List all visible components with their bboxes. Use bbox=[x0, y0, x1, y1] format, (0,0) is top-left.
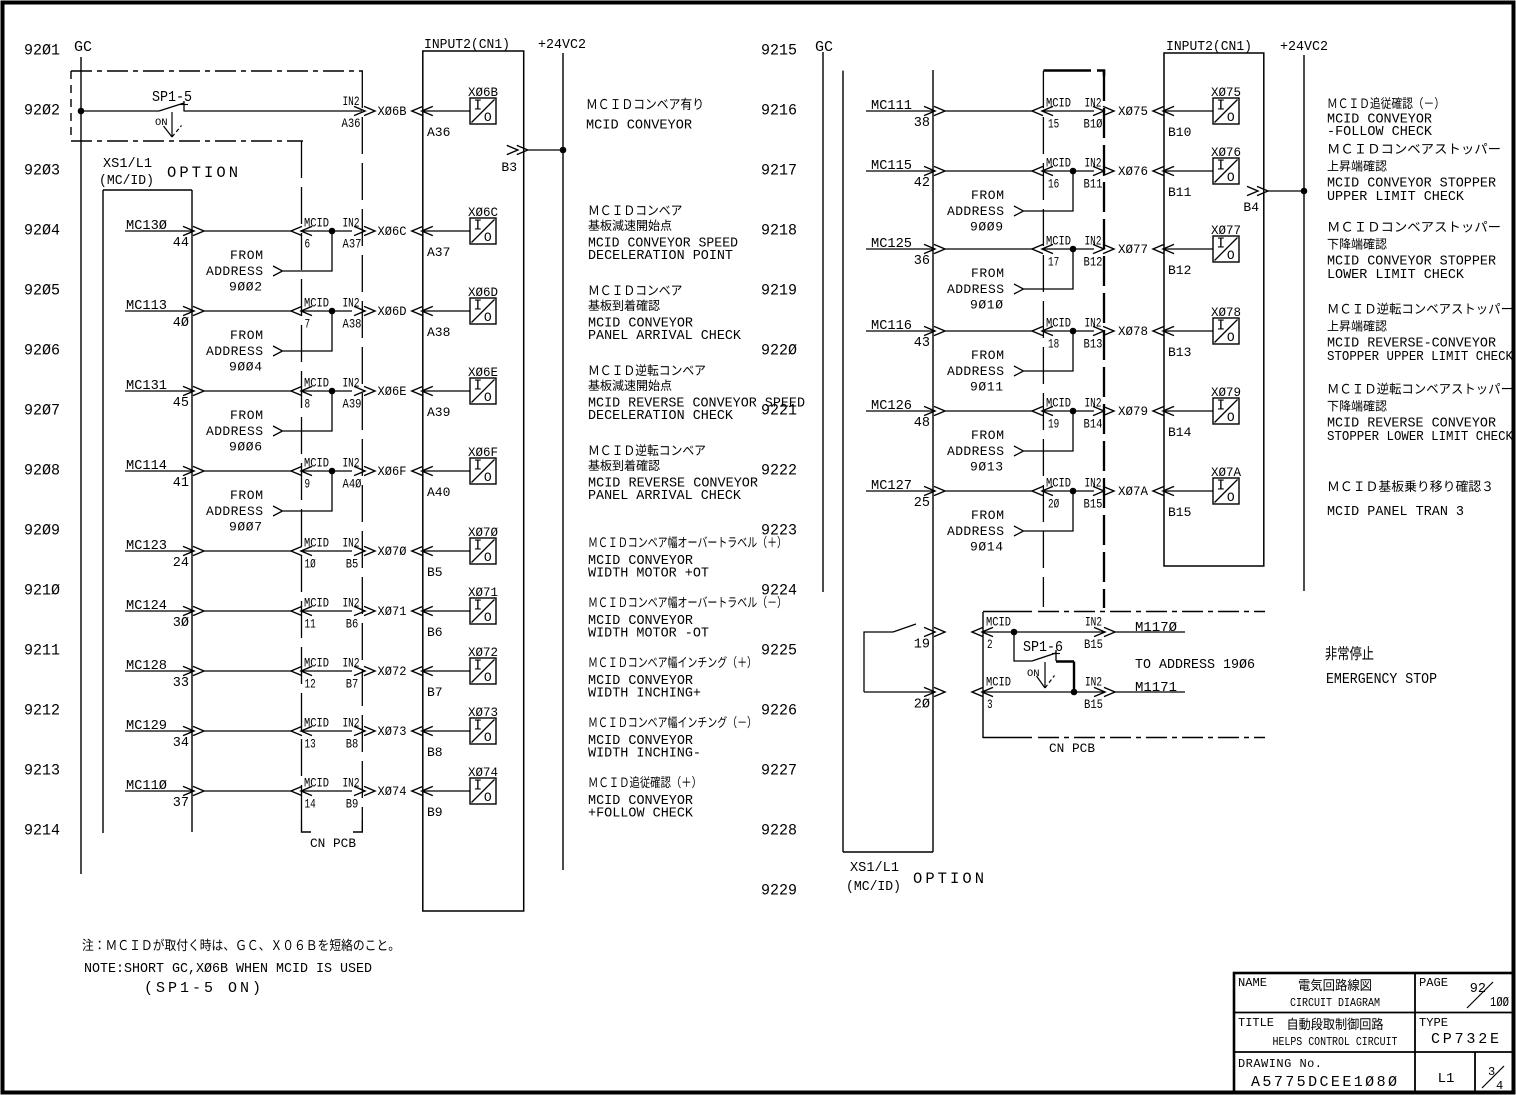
svg-text:9213: 9213 bbox=[24, 762, 60, 780]
svg-text:WIDTH INCHING-: WIDTH INCHING- bbox=[588, 746, 701, 762]
svg-text:FROM: FROM bbox=[971, 188, 1004, 203]
svg-text:XØ77: XØ77 bbox=[1211, 223, 1241, 238]
svg-text:XØ6B: XØ6B bbox=[468, 85, 498, 100]
svg-text:WIDTH MOTOR -OT: WIDTH MOTOR -OT bbox=[588, 626, 709, 642]
svg-text:O: O bbox=[484, 550, 492, 565]
svg-text:IN2: IN2 bbox=[1085, 615, 1102, 630]
svg-text:9229: 9229 bbox=[761, 882, 797, 900]
svg-text:FROM: FROM bbox=[230, 488, 263, 503]
svg-text:基板減速開始点: 基板減速開始点 bbox=[588, 375, 672, 394]
svg-text:PAGE: PAGE bbox=[1419, 976, 1448, 990]
svg-text:O: O bbox=[1227, 330, 1235, 345]
svg-text:XØ78: XØ78 bbox=[1211, 305, 1241, 320]
svg-text:XØ71: XØ71 bbox=[378, 604, 407, 619]
svg-text:DECELERATION CHECK: DECELERATION CHECK bbox=[588, 408, 734, 424]
svg-text:9ØØ9: 9ØØ9 bbox=[970, 220, 1003, 235]
svg-text:MCID: MCID bbox=[1046, 396, 1071, 411]
svg-text:XØ75: XØ75 bbox=[1118, 104, 1148, 119]
svg-text:24: 24 bbox=[173, 556, 189, 571]
svg-text:PANEL ARRIVAL CHECK: PANEL ARRIVAL CHECK bbox=[588, 488, 742, 504]
svg-text:MCID PANEL TRAN 3: MCID PANEL TRAN 3 bbox=[1327, 504, 1464, 520]
svg-text:M117Ø: M117Ø bbox=[1135, 620, 1177, 636]
svg-text:XØ79: XØ79 bbox=[1118, 404, 1148, 419]
svg-text:XØ6C: XØ6C bbox=[378, 224, 407, 239]
svg-text:XØ74: XØ74 bbox=[378, 784, 407, 799]
svg-text:O: O bbox=[1227, 110, 1235, 125]
svg-text:B1Ø: B1Ø bbox=[1084, 117, 1103, 132]
svg-text:基板到着確認: 基板到着確認 bbox=[588, 455, 660, 474]
svg-text:注：ＭＣＩＤが取付く時は、ＧＣ、Ｘ０６Ｂを短絡のこと。: 注：ＭＣＩＤが取付く時は、ＧＣ、Ｘ０６Ｂを短絡のこと。 bbox=[82, 934, 400, 954]
svg-text:2Ø: 2Ø bbox=[914, 698, 930, 713]
svg-text:XØ7A: XØ7A bbox=[1118, 484, 1148, 499]
svg-text:I: I bbox=[473, 779, 482, 795]
svg-text:B9: B9 bbox=[346, 797, 359, 812]
svg-text:TO ADDRESS 19Ø6: TO ADDRESS 19Ø6 bbox=[1135, 657, 1255, 673]
svg-text:A37: A37 bbox=[427, 245, 450, 260]
svg-text:92Ø9: 92Ø9 bbox=[24, 522, 60, 540]
svg-text:MC124: MC124 bbox=[126, 598, 167, 614]
svg-text:A36: A36 bbox=[342, 116, 361, 131]
svg-text:9Ø13: 9Ø13 bbox=[970, 460, 1003, 475]
svg-text:XØ6C: XØ6C bbox=[468, 205, 498, 220]
svg-text:I: I bbox=[1216, 319, 1225, 335]
svg-text:HELPS CONTROL CIRCUIT: HELPS CONTROL CIRCUIT bbox=[1273, 1036, 1398, 1049]
svg-text:O: O bbox=[484, 110, 492, 125]
svg-text:LOWER LIMIT CHECK: LOWER LIMIT CHECK bbox=[1327, 267, 1465, 283]
svg-text:CIRCUIT DIAGRAM: CIRCUIT DIAGRAM bbox=[1290, 997, 1380, 1010]
svg-text:下降端確認: 下降端確認 bbox=[1327, 396, 1387, 415]
svg-text:92Ø1: 92Ø1 bbox=[24, 42, 60, 60]
svg-text:MC128: MC128 bbox=[126, 658, 167, 674]
svg-text:MC131: MC131 bbox=[126, 378, 167, 394]
svg-text:A40: A40 bbox=[427, 485, 450, 500]
svg-text:MCID: MCID bbox=[304, 656, 329, 671]
svg-text:MCID: MCID bbox=[304, 456, 329, 471]
svg-text:O: O bbox=[1227, 490, 1235, 505]
svg-text:36: 36 bbox=[914, 254, 930, 269]
svg-text:FROM: FROM bbox=[971, 428, 1004, 443]
svg-text:B4: B4 bbox=[1243, 200, 1259, 215]
svg-text:EMERGENCY STOP: EMERGENCY STOP bbox=[1326, 671, 1437, 688]
svg-text:I: I bbox=[473, 299, 482, 315]
svg-text:11: 11 bbox=[305, 617, 316, 632]
svg-text:17: 17 bbox=[1048, 255, 1059, 270]
svg-text:INPUT2(CN1): INPUT2(CN1) bbox=[424, 38, 510, 53]
svg-text:I: I bbox=[1216, 399, 1225, 415]
svg-text:MC129: MC129 bbox=[126, 718, 167, 734]
svg-text:14: 14 bbox=[305, 797, 316, 812]
svg-text:XØ76: XØ76 bbox=[1118, 164, 1148, 179]
svg-text:SP1-5: SP1-5 bbox=[152, 90, 192, 106]
svg-text:MC111: MC111 bbox=[871, 98, 912, 114]
svg-text:I: I bbox=[1216, 237, 1225, 253]
svg-text:L1: L1 bbox=[1438, 1071, 1455, 1087]
svg-text:16: 16 bbox=[1048, 177, 1059, 192]
svg-text:9226: 9226 bbox=[761, 702, 797, 720]
svg-text:I: I bbox=[473, 219, 482, 235]
svg-text:O: O bbox=[484, 730, 492, 745]
svg-text:XØ73: XØ73 bbox=[378, 724, 407, 739]
svg-text:IN2: IN2 bbox=[343, 94, 360, 109]
svg-text:19: 19 bbox=[1048, 417, 1059, 432]
svg-text:13: 13 bbox=[305, 737, 316, 752]
svg-text:O: O bbox=[1227, 248, 1235, 263]
svg-text:I: I bbox=[473, 599, 482, 615]
svg-text:B12: B12 bbox=[1168, 263, 1191, 278]
svg-text:9217: 9217 bbox=[761, 162, 797, 180]
svg-text:48: 48 bbox=[914, 416, 930, 431]
svg-text:XØ6D: XØ6D bbox=[378, 304, 407, 319]
svg-text:7: 7 bbox=[305, 317, 311, 332]
svg-text:XØ6B: XØ6B bbox=[378, 104, 407, 119]
svg-text:(MC/ID): (MC/ID) bbox=[99, 173, 154, 189]
svg-text:45: 45 bbox=[173, 396, 189, 411]
svg-text:MCID: MCID bbox=[986, 615, 1011, 630]
svg-text:A36: A36 bbox=[427, 125, 450, 140]
svg-text:ＭＣＩＤ追従確認（＋）: ＭＣＩＤ追従確認（＋） bbox=[588, 772, 702, 791]
svg-text:MCID: MCID bbox=[1046, 156, 1071, 171]
svg-text:38: 38 bbox=[914, 116, 930, 131]
svg-text:DECELERATION POINT: DECELERATION POINT bbox=[588, 248, 733, 264]
svg-text:ON: ON bbox=[155, 117, 168, 129]
svg-text:DRAWING No.: DRAWING No. bbox=[1238, 1057, 1322, 1071]
svg-text:9: 9 bbox=[305, 477, 311, 492]
svg-text:34: 34 bbox=[173, 736, 189, 751]
svg-text:MC125: MC125 bbox=[871, 236, 912, 252]
svg-text:9ØØ7: 9ØØ7 bbox=[229, 520, 262, 535]
svg-text:MC115: MC115 bbox=[871, 158, 912, 174]
svg-text:WIDTH INCHING+: WIDTH INCHING+ bbox=[588, 686, 701, 702]
svg-text:4: 4 bbox=[1496, 1079, 1503, 1093]
svg-text:XØ6D: XØ6D bbox=[468, 285, 498, 300]
svg-text:ＭＣＩＤ追従確認（－）: ＭＣＩＤ追従確認（－） bbox=[1327, 93, 1445, 112]
svg-text:MC113: MC113 bbox=[126, 298, 167, 314]
svg-text:下降端確認: 下降端確認 bbox=[1327, 234, 1387, 253]
svg-text:42: 42 bbox=[914, 176, 930, 191]
svg-text:TYPE: TYPE bbox=[1419, 1016, 1448, 1030]
svg-text:1ØØ: 1ØØ bbox=[1490, 996, 1509, 1011]
svg-text:MCID: MCID bbox=[304, 596, 329, 611]
svg-text:XØ71: XØ71 bbox=[468, 585, 498, 600]
svg-text:9212: 9212 bbox=[24, 702, 60, 720]
svg-text:41: 41 bbox=[173, 476, 189, 491]
svg-text:9Ø1Ø: 9Ø1Ø bbox=[970, 298, 1003, 313]
svg-text:CN PCB: CN PCB bbox=[1049, 741, 1095, 756]
svg-text:O: O bbox=[484, 670, 492, 685]
svg-text:XØ75: XØ75 bbox=[1211, 85, 1241, 100]
svg-text:922Ø: 922Ø bbox=[761, 342, 797, 360]
svg-text:O: O bbox=[484, 390, 492, 405]
svg-text:ＭＣＩＤ基板乗り移り確認３: ＭＣＩＤ基板乗り移り確認３ bbox=[1327, 476, 1494, 495]
svg-text:MCID: MCID bbox=[304, 536, 329, 551]
svg-text:B13: B13 bbox=[1084, 337, 1103, 352]
svg-text:92Ø7: 92Ø7 bbox=[24, 402, 60, 420]
svg-text:XØ76: XØ76 bbox=[1211, 145, 1241, 160]
svg-text:STOPPER UPPER LIMIT CHECK: STOPPER UPPER LIMIT CHECK bbox=[1327, 349, 1514, 365]
svg-text:1Ø: 1Ø bbox=[305, 557, 316, 572]
svg-text:B3: B3 bbox=[501, 160, 517, 175]
svg-text:I: I bbox=[473, 99, 482, 115]
svg-text:上昇端確認: 上昇端確認 bbox=[1327, 156, 1387, 175]
svg-text:MCID: MCID bbox=[986, 675, 1011, 690]
svg-text:18: 18 bbox=[1048, 337, 1059, 352]
svg-text:I: I bbox=[1216, 99, 1225, 115]
svg-text:XØ7Ø: XØ7Ø bbox=[378, 544, 407, 559]
svg-text:92Ø3: 92Ø3 bbox=[24, 162, 60, 180]
svg-text:MC123: MC123 bbox=[126, 538, 167, 554]
svg-text:MCID: MCID bbox=[1046, 316, 1071, 331]
svg-text:B14: B14 bbox=[1084, 417, 1103, 432]
svg-text:I: I bbox=[1216, 159, 1225, 175]
svg-text:ADDRESS: ADDRESS bbox=[206, 344, 263, 359]
svg-text:B6: B6 bbox=[346, 617, 359, 632]
svg-text:ADDRESS: ADDRESS bbox=[206, 264, 263, 279]
svg-text:MC116: MC116 bbox=[871, 318, 912, 334]
svg-text:XØ74: XØ74 bbox=[468, 765, 498, 780]
svg-text:O: O bbox=[484, 610, 492, 625]
svg-text:FROM: FROM bbox=[971, 508, 1004, 523]
svg-text:B7: B7 bbox=[427, 685, 443, 700]
svg-text:FROM: FROM bbox=[230, 408, 263, 423]
svg-text:3: 3 bbox=[1488, 1065, 1495, 1079]
svg-text:IN2: IN2 bbox=[1085, 675, 1102, 690]
svg-text:FROM: FROM bbox=[230, 248, 263, 263]
svg-text:8: 8 bbox=[305, 397, 311, 412]
svg-text:3: 3 bbox=[987, 697, 993, 712]
svg-text:XØ7Ø: XØ7Ø bbox=[468, 525, 498, 540]
svg-text:INPUT2(CN1): INPUT2(CN1) bbox=[1166, 40, 1252, 55]
svg-text:9218: 9218 bbox=[761, 222, 797, 240]
svg-text:MCID: MCID bbox=[1046, 476, 1071, 491]
svg-text:O: O bbox=[484, 790, 492, 805]
svg-text:9Ø11: 9Ø11 bbox=[970, 380, 1003, 395]
svg-text:MC114: MC114 bbox=[126, 458, 167, 474]
svg-text:B8: B8 bbox=[427, 745, 443, 760]
svg-text:B11: B11 bbox=[1084, 177, 1103, 192]
svg-text:XS1/L1: XS1/L1 bbox=[850, 860, 899, 876]
svg-text:A39: A39 bbox=[343, 397, 362, 412]
svg-text:FROM: FROM bbox=[971, 348, 1004, 363]
svg-text:92Ø5: 92Ø5 bbox=[24, 282, 60, 300]
svg-text:44: 44 bbox=[173, 236, 189, 251]
svg-text:O: O bbox=[484, 230, 492, 245]
svg-text:9225: 9225 bbox=[761, 642, 797, 660]
svg-text:12: 12 bbox=[305, 677, 316, 692]
svg-text:9222: 9222 bbox=[761, 462, 797, 480]
svg-text:(MC/ID): (MC/ID) bbox=[846, 879, 901, 895]
svg-text:9215: 9215 bbox=[761, 42, 797, 60]
svg-text:MC13Ø: MC13Ø bbox=[126, 218, 167, 234]
svg-text:ADDRESS: ADDRESS bbox=[947, 282, 1004, 297]
svg-text:XØ78: XØ78 bbox=[1118, 324, 1148, 339]
svg-text:STOPPER LOWER LIMIT CHECK: STOPPER LOWER LIMIT CHECK bbox=[1327, 429, 1514, 445]
svg-text:B15: B15 bbox=[1084, 697, 1103, 712]
svg-text:XØ72: XØ72 bbox=[468, 645, 498, 660]
svg-text:XS1/L1: XS1/L1 bbox=[103, 156, 152, 172]
svg-text:ADDRESS: ADDRESS bbox=[947, 364, 1004, 379]
svg-text:2: 2 bbox=[987, 637, 993, 652]
svg-text:B8: B8 bbox=[346, 737, 359, 752]
svg-text:O: O bbox=[484, 470, 492, 485]
svg-text:92Ø2: 92Ø2 bbox=[24, 102, 60, 120]
svg-text:MCID: MCID bbox=[304, 216, 329, 231]
svg-text:I: I bbox=[1216, 479, 1225, 495]
svg-text:電気回路線図: 電気回路線図 bbox=[1298, 974, 1372, 994]
svg-text:XØ6E: XØ6E bbox=[378, 384, 407, 399]
svg-text:19: 19 bbox=[914, 638, 930, 653]
svg-text:B5: B5 bbox=[427, 565, 443, 580]
svg-text:B6: B6 bbox=[427, 625, 443, 640]
svg-text:MCID: MCID bbox=[1046, 96, 1071, 111]
svg-text:XØ6E: XØ6E bbox=[468, 365, 498, 380]
svg-text:B10: B10 bbox=[1168, 125, 1191, 140]
svg-text:I: I bbox=[473, 459, 482, 475]
svg-text:ＭＣＩＤコンベア幅インチング（＋）: ＭＣＩＤコンベア幅インチング（＋） bbox=[588, 652, 757, 671]
svg-text:ＭＣＩＤコンベア幅オーバートラベル（－）: ＭＣＩＤコンベア幅オーバートラベル（－） bbox=[588, 592, 787, 611]
svg-text:A38: A38 bbox=[427, 325, 450, 340]
svg-text:非常停止: 非常停止 bbox=[1325, 642, 1374, 664]
svg-text:3Ø: 3Ø bbox=[173, 616, 189, 631]
svg-text:92: 92 bbox=[1470, 982, 1486, 997]
svg-text:25: 25 bbox=[914, 496, 930, 511]
svg-text:I: I bbox=[473, 659, 482, 675]
svg-text:MCID: MCID bbox=[1046, 234, 1071, 249]
svg-text:921Ø: 921Ø bbox=[24, 582, 60, 600]
svg-text:FROM: FROM bbox=[230, 328, 263, 343]
svg-text:37: 37 bbox=[173, 796, 189, 811]
svg-text:A4Ø: A4Ø bbox=[343, 477, 362, 492]
svg-text:+24VC2: +24VC2 bbox=[1280, 40, 1328, 55]
svg-text:4Ø: 4Ø bbox=[173, 316, 189, 331]
svg-text:XØ6F: XØ6F bbox=[378, 464, 407, 479]
svg-text:基板到着確認: 基板到着確認 bbox=[588, 295, 660, 314]
svg-text:9ØØ2: 9ØØ2 bbox=[229, 280, 262, 295]
svg-text:MC11Ø: MC11Ø bbox=[126, 778, 167, 794]
svg-text:2Ø: 2Ø bbox=[1048, 497, 1059, 512]
svg-text:XØ72: XØ72 bbox=[378, 664, 407, 679]
svg-text:O: O bbox=[1227, 410, 1235, 425]
svg-text:9219: 9219 bbox=[761, 282, 797, 300]
svg-text:ＭＣＩＤコンベア有り: ＭＣＩＤコンベア有り bbox=[586, 93, 704, 113]
svg-text:A37: A37 bbox=[343, 237, 362, 252]
svg-text:B15: B15 bbox=[1084, 497, 1103, 512]
svg-text:MCID CONVEYOR: MCID CONVEYOR bbox=[586, 118, 693, 134]
svg-text:ADDRESS: ADDRESS bbox=[947, 524, 1004, 539]
svg-text:ADDRESS: ADDRESS bbox=[206, 504, 263, 519]
svg-text:B9: B9 bbox=[427, 805, 443, 820]
svg-text:CN PCB: CN PCB bbox=[310, 836, 356, 851]
svg-text:9211: 9211 bbox=[24, 642, 60, 660]
svg-text:33: 33 bbox=[173, 676, 189, 691]
svg-text:I: I bbox=[473, 539, 482, 555]
svg-text:WIDTH MOTOR +OT: WIDTH MOTOR +OT bbox=[588, 566, 709, 582]
svg-text:B7: B7 bbox=[346, 677, 359, 692]
svg-text:43: 43 bbox=[914, 336, 930, 351]
svg-text:15: 15 bbox=[1048, 117, 1059, 132]
svg-text:B12: B12 bbox=[1084, 255, 1103, 270]
svg-text:92Ø8: 92Ø8 bbox=[24, 462, 60, 480]
svg-text:9216: 9216 bbox=[761, 102, 797, 120]
svg-text:MCID: MCID bbox=[304, 296, 329, 311]
svg-text:MC126: MC126 bbox=[871, 398, 912, 414]
svg-text:NOTE:SHORT GC,XØ6B WHEN MCID I: NOTE:SHORT GC,XØ6B WHEN MCID IS USED bbox=[84, 961, 372, 977]
svg-text:MCID: MCID bbox=[304, 716, 329, 731]
svg-text:自動段取制御回路: 自動段取制御回路 bbox=[1287, 1013, 1384, 1033]
svg-text:B11: B11 bbox=[1168, 185, 1192, 200]
svg-text:9228: 9228 bbox=[761, 822, 797, 840]
svg-text:UPPER LIMIT CHECK: UPPER LIMIT CHECK bbox=[1327, 189, 1465, 205]
svg-text:ADDRESS: ADDRESS bbox=[206, 424, 263, 439]
svg-text:基板減速開始点: 基板減速開始点 bbox=[588, 215, 672, 234]
svg-text:+24VC2: +24VC2 bbox=[538, 38, 586, 53]
svg-text:MC127: MC127 bbox=[871, 478, 912, 494]
svg-text:XØ73: XØ73 bbox=[468, 705, 498, 720]
svg-text:MCID: MCID bbox=[304, 376, 329, 391]
svg-text:FROM: FROM bbox=[971, 266, 1004, 281]
svg-text:6: 6 bbox=[305, 237, 311, 252]
svg-text:ＭＣＩＤコンベア幅オーバートラベル（＋）: ＭＣＩＤコンベア幅オーバートラベル（＋） bbox=[588, 532, 787, 551]
svg-text:+FOLLOW CHECK: +FOLLOW CHECK bbox=[588, 806, 694, 822]
svg-text:NAME: NAME bbox=[1238, 976, 1267, 990]
svg-text:9ØØ4: 9ØØ4 bbox=[229, 360, 262, 375]
svg-text:GC: GC bbox=[74, 39, 92, 56]
svg-text:B5: B5 bbox=[346, 557, 359, 572]
svg-text:9ØØ6: 9ØØ6 bbox=[229, 440, 262, 455]
svg-text:ADDRESS: ADDRESS bbox=[947, 204, 1004, 219]
svg-text:XØ7A: XØ7A bbox=[1211, 465, 1241, 480]
svg-text:B15: B15 bbox=[1084, 637, 1103, 652]
svg-text:ＭＣＩＤコンベア幅インチング（－）: ＭＣＩＤコンベア幅インチング（－） bbox=[588, 712, 757, 731]
svg-text:O: O bbox=[1227, 170, 1235, 185]
svg-text:B15: B15 bbox=[1168, 505, 1191, 520]
svg-text:GC: GC bbox=[815, 39, 833, 56]
svg-text:9214: 9214 bbox=[24, 822, 60, 840]
svg-text:M1171: M1171 bbox=[1135, 680, 1177, 696]
svg-text:A38: A38 bbox=[343, 317, 362, 332]
svg-text:9227: 9227 bbox=[761, 762, 797, 780]
svg-text:A39: A39 bbox=[427, 405, 450, 420]
svg-text:XØ79: XØ79 bbox=[1211, 385, 1241, 400]
svg-text:ADDRESS: ADDRESS bbox=[947, 444, 1004, 459]
svg-text:TITLE: TITLE bbox=[1238, 1016, 1274, 1030]
svg-text:92Ø6: 92Ø6 bbox=[24, 342, 60, 360]
svg-text:XØ6F: XØ6F bbox=[468, 445, 498, 460]
svg-text:O: O bbox=[484, 310, 492, 325]
svg-text:B13: B13 bbox=[1168, 345, 1191, 360]
svg-text:9Ø14: 9Ø14 bbox=[970, 540, 1003, 555]
svg-text:I: I bbox=[473, 379, 482, 395]
svg-text:XØ77: XØ77 bbox=[1118, 242, 1148, 257]
svg-text:B14: B14 bbox=[1168, 425, 1192, 440]
svg-text:92Ø4: 92Ø4 bbox=[24, 222, 60, 240]
svg-text:MCID: MCID bbox=[304, 776, 329, 791]
svg-text:PANEL ARRIVAL CHECK: PANEL ARRIVAL CHECK bbox=[588, 328, 742, 344]
svg-text:上昇端確認: 上昇端確認 bbox=[1327, 316, 1387, 335]
svg-text:I: I bbox=[473, 719, 482, 735]
